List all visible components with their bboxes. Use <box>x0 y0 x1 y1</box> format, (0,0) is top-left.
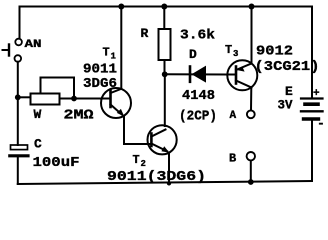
junction dot wiper / T1 base wire <box>71 96 77 102</box>
wire terminal B to bottom rail <box>250 161 252 182</box>
wire node to T2 collector <box>164 74 166 126</box>
T2 emitter arrowhead <box>161 146 169 153</box>
junction dot R bottom / diode / T2 collector <box>162 71 168 77</box>
wire left column below switch <box>17 62 19 145</box>
wire left drop to switch <box>19 7 21 39</box>
T1 emitter arrowhead <box>117 109 125 117</box>
terminal A <box>247 110 255 118</box>
svg-text:1: 1 <box>111 52 117 62</box>
wire right drop to battery + <box>311 7 313 98</box>
junction dot top rail / T1 collector <box>118 4 124 10</box>
wire bottom rail <box>18 181 312 184</box>
svg-text:-: - <box>317 116 325 131</box>
transistor T1 <box>101 88 131 118</box>
wire battery minus to bottom rail <box>311 121 313 182</box>
capacitor C plates <box>10 145 28 156</box>
svg-text:2MΩ: 2MΩ <box>64 108 95 124</box>
svg-text:3.6k: 3.6k <box>180 28 215 44</box>
terminal B <box>247 152 255 160</box>
potentiometer W wiper loop <box>41 78 75 99</box>
resistor R body <box>159 29 171 60</box>
wire node to potentiometer <box>18 96 30 98</box>
transistor T3 <box>227 60 257 90</box>
svg-text:2: 2 <box>141 159 146 169</box>
svg-text:9012: 9012 <box>256 44 293 60</box>
junction dot T2 emitter / bottom rail <box>167 181 171 185</box>
svg-text:9011(3DG6): 9011(3DG6) <box>107 169 206 185</box>
svg-text:100uF: 100uF <box>33 155 80 171</box>
svg-text:C: C <box>34 137 42 152</box>
svg-text:4148: 4148 <box>182 88 215 104</box>
svg-text:R: R <box>141 26 149 41</box>
junction dot terminal B / bottom rail <box>248 179 254 185</box>
svg-text:T: T <box>133 153 140 167</box>
wire capacitor to bottom rail <box>17 157 19 184</box>
svg-text:AN: AN <box>25 39 42 51</box>
svg-text:T: T <box>103 46 110 60</box>
junction dot top rail / T3 emitter <box>249 4 255 10</box>
svg-text:A: A <box>230 110 237 122</box>
pushbutton AN <box>3 39 22 62</box>
svg-text:(2CP): (2CP) <box>179 109 217 125</box>
junction dot left rail / potentiometer <box>15 94 21 100</box>
diode D 4148 <box>190 66 206 83</box>
transistor T2 <box>148 125 177 154</box>
svg-text:D: D <box>189 47 197 62</box>
wire T3 collector to terminal A <box>250 87 252 110</box>
svg-text:W: W <box>34 107 42 122</box>
battery E plates <box>301 99 323 120</box>
T3 emitter arrowhead (PNP, points to base bar) <box>237 66 245 71</box>
svg-text:3: 3 <box>233 49 238 59</box>
wire T1 emitter to T2 base <box>124 117 151 145</box>
svg-text:3DG6: 3DG6 <box>83 76 117 92</box>
svg-text:(3CG21): (3CG21) <box>255 59 320 75</box>
wire T1 collector to top rail <box>120 7 122 90</box>
potentiometer W body <box>31 94 60 105</box>
svg-text:B: B <box>229 152 236 166</box>
wire T2 emitter to bottom rail <box>168 153 170 184</box>
wire diode branch <box>165 73 228 75</box>
resistor R leads <box>163 7 165 30</box>
svg-text:3V: 3V <box>278 98 293 113</box>
wire T3 emitter to top rail <box>251 7 253 64</box>
svg-text:+: + <box>313 88 320 100</box>
wire potentiometer to T1 base <box>60 98 102 100</box>
svg-text:T: T <box>225 43 232 57</box>
junction dot top rail / resistor R <box>161 4 167 10</box>
wire top rail <box>20 6 313 8</box>
wire resistor R bottom to node <box>164 60 166 74</box>
